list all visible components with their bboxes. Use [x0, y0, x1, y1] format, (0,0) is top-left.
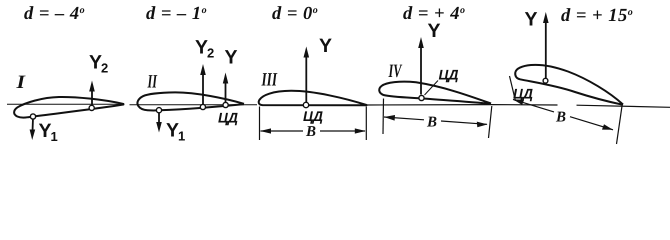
- svg-text:IV: IV: [388, 61, 402, 82]
- svg-text:В: В: [426, 115, 437, 131]
- svg-text:2: 2: [101, 61, 108, 76]
- svg-text:Y: Y: [525, 9, 538, 31]
- svg-text:1: 1: [51, 129, 58, 144]
- svg-text:ЦД: ЦД: [218, 110, 238, 126]
- svg-text:III: III: [261, 70, 278, 91]
- svg-text:ЦД: ЦД: [439, 67, 459, 83]
- svg-text:d = – 1o: d = – 1o: [146, 4, 207, 24]
- svg-text:d = – 4o: d = – 4o: [24, 4, 85, 24]
- svg-text:Y: Y: [428, 20, 441, 42]
- svg-text:d = + 15o: d = + 15o: [561, 6, 633, 26]
- svg-text:1: 1: [178, 129, 185, 144]
- svg-text:II: II: [147, 72, 158, 93]
- svg-text:Y: Y: [225, 47, 238, 69]
- svg-text:ЦД: ЦД: [513, 86, 533, 102]
- svg-text:d = 0o: d = 0o: [272, 4, 318, 24]
- svg-text:I: I: [15, 72, 25, 93]
- svg-text:В: В: [305, 124, 316, 140]
- svg-text:Y: Y: [319, 35, 332, 57]
- svg-text:2: 2: [207, 46, 214, 61]
- svg-text:В: В: [555, 110, 566, 126]
- svg-text:ЦД: ЦД: [303, 108, 323, 124]
